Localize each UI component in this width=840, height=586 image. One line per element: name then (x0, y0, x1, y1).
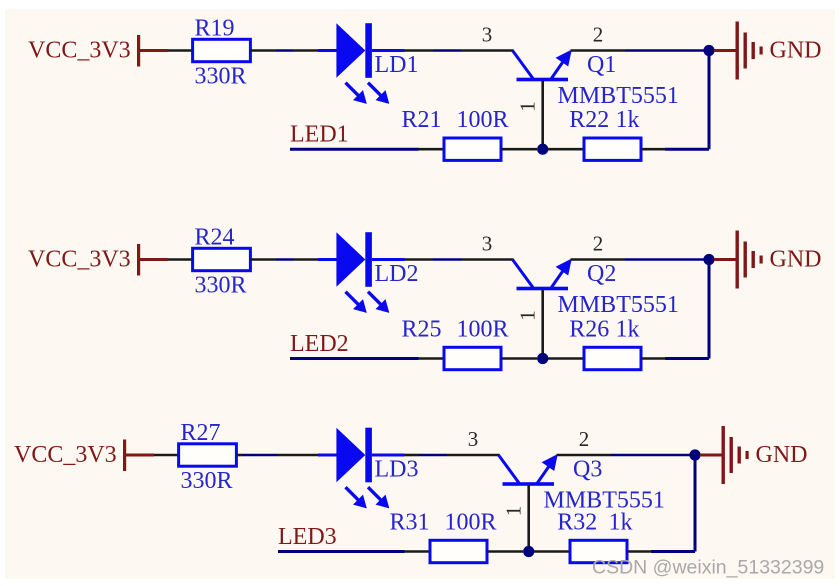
wire R27 to LD3 (236, 454, 242, 457)
svg-text:1: 1 (515, 101, 539, 112)
wire R24 to LD2 (250, 258, 276, 261)
LED LD2 light arrow 2 (368, 292, 389, 313)
transistor Q1 emitter lead with arrow (551, 50, 572, 80)
wire R32 to GND riser (627, 550, 652, 553)
svg-text:CSDN @weixin_51332399: CSDN @weixin_51332399 (592, 557, 824, 579)
wire base node to R26 (548, 357, 585, 360)
svg-text:GND: GND (770, 247, 822, 273)
svg-text:Q3: Q3 (573, 457, 602, 483)
svg-text:Q2: Q2 (587, 261, 616, 287)
svg-text:GND: GND (770, 38, 822, 64)
wire R21 to base node (501, 148, 537, 151)
svg-text:2: 2 (593, 23, 604, 47)
wire GND node down to R32 (row 3) (694, 455, 697, 552)
wire Q2 base down to node (541, 290, 544, 359)
transistor Q1 collector lead (513, 51, 534, 79)
svg-text:VCC_3V3: VCC_3V3 (28, 247, 131, 273)
LED LD1 cathode bar (365, 23, 372, 78)
power port VCC_3V3 (row 3) (14, 440, 154, 472)
ground symbol GND (row 3) (700, 426, 749, 484)
junction dot at GND node (row 3) (689, 449, 700, 460)
svg-text:R31: R31 (390, 509, 430, 535)
transistor Q3 base bar (503, 482, 555, 486)
svg-text:2: 2 (593, 232, 604, 256)
wire Q3 base down to node (527, 486, 530, 552)
resistor R31 100R (430, 540, 487, 562)
svg-text:VCC_3V3: VCC_3V3 (28, 38, 131, 64)
svg-text:LED3: LED3 (278, 524, 337, 550)
junction dot at base node (row 1) (537, 144, 548, 155)
svg-text:1k: 1k (616, 316, 640, 342)
svg-text:MMBT5551: MMBT5551 (558, 292, 679, 318)
junction dot at GND node (row 2) (703, 254, 714, 265)
svg-text:R32: R32 (557, 509, 597, 535)
svg-text:2: 2 (579, 427, 590, 451)
junction dot at base node (row 2) (537, 353, 548, 364)
wire LD3 to Q3 collector (405, 454, 420, 457)
svg-text:R19: R19 (195, 16, 235, 42)
wire net LED2 to R25 (290, 357, 419, 360)
wire R31 to base node (487, 550, 523, 553)
LED LD2 cathode pin (372, 258, 405, 261)
wire base node to R32 (534, 550, 571, 553)
transistor Q2 emitter lead with arrow (551, 259, 572, 289)
svg-text:1k: 1k (616, 107, 640, 133)
svg-text:100R: 100R (445, 509, 497, 535)
resistor R25 100R (444, 347, 501, 369)
wire R22 to GND riser (641, 148, 666, 151)
svg-text:GND: GND (756, 442, 808, 468)
wire base node to R22 (548, 148, 585, 151)
svg-text:R25: R25 (402, 316, 442, 342)
svg-text:Q1: Q1 (587, 52, 616, 78)
transistor Q3 collector lead (499, 455, 520, 483)
transistor Q2 collector lead (513, 260, 534, 288)
svg-text:LD1: LD1 (375, 52, 419, 78)
ground symbol GND (row 2) (714, 231, 763, 289)
wire Q2 emitter to GND junction (571, 258, 626, 261)
svg-text:1: 1 (515, 310, 539, 321)
LED LD1 light arrow 2 (368, 83, 389, 104)
wire VCC_3V3 to R27 (154, 454, 179, 457)
wire R25 to base node (501, 357, 537, 360)
ground symbol GND (row 1) (714, 22, 763, 80)
LED LD3 cathode bar (365, 428, 372, 483)
LED LD2 light arrow 1 (346, 292, 367, 313)
junction dot at GND node (row 1) (703, 45, 714, 56)
wire Q1 base down to node (541, 81, 544, 149)
resistor R24 330R (193, 248, 251, 270)
wire net LED1 to R21 (290, 148, 419, 151)
LED LD2 cathode bar (365, 232, 372, 287)
wire VCC_3V3 to R24 (168, 258, 193, 261)
svg-text:3: 3 (482, 23, 493, 47)
wire VCC_3V3 to R19 (168, 49, 193, 52)
wire R19 to LD1 (250, 49, 276, 52)
LED LD1 light arrow 1 (346, 83, 367, 104)
power port VCC_3V3 (row 2) (28, 244, 168, 276)
svg-text:330R: 330R (181, 468, 233, 494)
LED LD3 diode triangle (336, 428, 365, 483)
svg-text:MMBT5551: MMBT5551 (558, 83, 679, 109)
LED LD3 light arrow 2 (368, 487, 389, 508)
svg-text:330R: 330R (195, 273, 247, 299)
wire LD2 to Q2 collector (405, 258, 434, 261)
resistor R26 1k (584, 347, 641, 369)
LED LD1 diode triangle (336, 23, 365, 78)
transistor Q1 base bar (517, 78, 569, 82)
svg-text:LD3: LD3 (375, 457, 419, 483)
wire GND node down to R22 (row 1) (708, 51, 711, 150)
resistor R21 100R (444, 138, 501, 160)
resistor R27 330R (179, 444, 237, 466)
LED LD3 cathode pin (372, 454, 405, 457)
svg-text:R24: R24 (195, 225, 235, 251)
svg-text:LED2: LED2 (290, 331, 349, 357)
power port VCC_3V3 (row 1) (28, 35, 168, 67)
svg-text:R22: R22 (569, 107, 609, 133)
resistor R32 1k (570, 540, 627, 562)
svg-text:VCC_3V3: VCC_3V3 (14, 442, 117, 468)
wire LD1 to Q1 collector (405, 49, 434, 52)
LED LD3 light arrow 1 (346, 487, 367, 508)
svg-text:1: 1 (501, 506, 525, 517)
svg-text:LED1: LED1 (290, 122, 349, 148)
svg-text:R26: R26 (569, 316, 609, 342)
svg-text:R27: R27 (181, 420, 221, 446)
resistor R19 330R (193, 39, 251, 61)
svg-text:3: 3 (482, 232, 493, 256)
LED LD2 diode triangle (336, 232, 365, 287)
resistor R22 1k (584, 138, 641, 160)
LED LD3 anode pin (318, 454, 337, 457)
transistor Q3 emitter lead with arrow (537, 454, 558, 484)
junction dot at base node (row 3) (523, 546, 534, 557)
svg-text:LD2: LD2 (375, 261, 419, 287)
transistor Q2 base bar (517, 287, 569, 291)
svg-text:100R: 100R (457, 107, 509, 133)
LED LD2 anode pin (318, 258, 337, 261)
svg-text:R21: R21 (402, 107, 442, 133)
wire R26 to GND riser (641, 357, 666, 360)
wire Q3 emitter to GND junction (557, 454, 612, 457)
LED LD1 cathode pin (372, 49, 405, 52)
wire Q1 emitter to GND junction (571, 49, 626, 52)
svg-text:100R: 100R (457, 316, 509, 342)
LED LD1 anode pin (318, 49, 337, 52)
svg-text:3: 3 (468, 427, 479, 451)
svg-text:1k: 1k (609, 509, 633, 535)
wire net LED3 to R31 (278, 550, 405, 553)
wire GND node down to R26 (row 2) (708, 260, 711, 359)
svg-text:330R: 330R (195, 64, 247, 90)
